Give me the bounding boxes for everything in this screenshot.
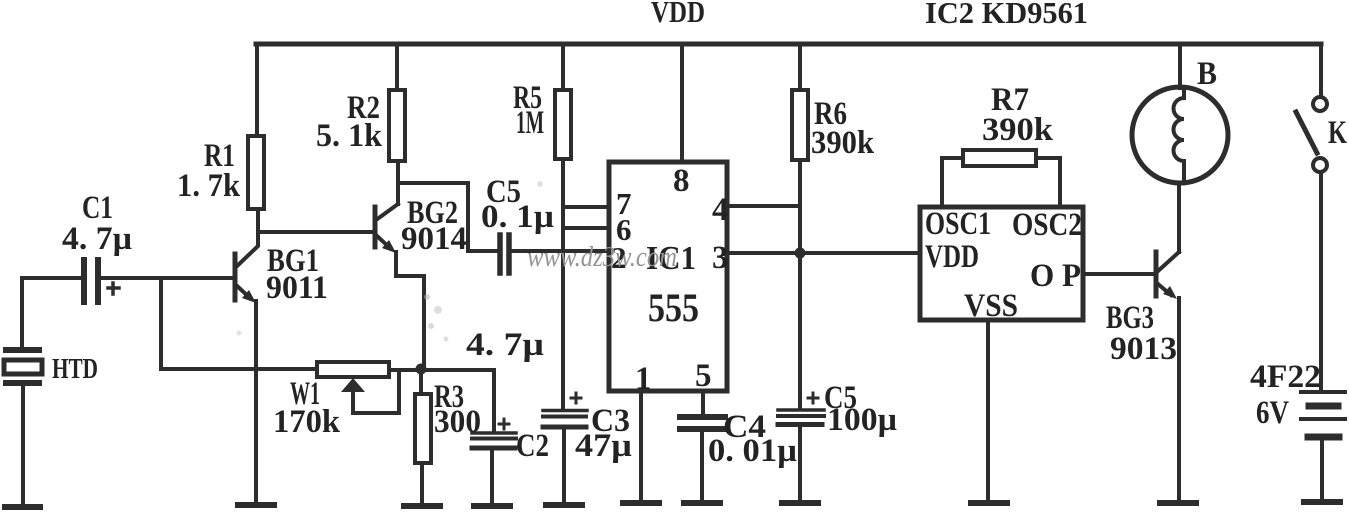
svg-text:B: B (1197, 56, 1217, 92)
svg-text:0. 1µ: 0. 1µ (481, 199, 554, 235)
ground C4 (684, 500, 720, 506)
potentiometer W1 wiper arrow (341, 378, 365, 392)
wire BG1 emitter down to ground (254, 301, 258, 505)
potentiometer W1 wiper connection (353, 372, 399, 413)
wire input junction down and right to W1 left end (161, 278, 316, 369)
resistor R1 (248, 136, 264, 209)
wire R2 branch from rail (395, 44, 399, 90)
wire R5 branch from rail (561, 44, 565, 90)
svg-text:5. 1k: 5. 1k (316, 118, 383, 154)
svg-text:9014: 9014 (401, 221, 467, 257)
wire 555 pin 5 stub to C4 (701, 391, 705, 416)
IC2 KD9561 box (920, 207, 1083, 320)
wire R7 left lead to OSC1 (942, 158, 963, 207)
transistor BG1 (233, 254, 238, 300)
svg-text:4: 4 (712, 192, 729, 228)
svg-text:4F22: 4F22 (1250, 359, 1321, 395)
resistor R6 (792, 90, 808, 160)
ground BG3 emitter (1160, 500, 1196, 506)
svg-text:100µ: 100µ (827, 402, 897, 438)
wire 555 pin 8 stub from rail (680, 44, 684, 162)
wire IC2 VSS stub to ground (986, 320, 990, 503)
svg-text:HTD: HTD (52, 354, 98, 385)
svg-text:VSS: VSS (964, 288, 1018, 324)
HTD piezo element (6, 347, 39, 353)
transistor BG3 (1154, 252, 1159, 296)
wire C5b bottom plate to ground (798, 426, 802, 503)
wire 555 pin 4 stub to R6 line (727, 204, 800, 208)
wire BG2 collector node to C5 left plate (398, 183, 497, 251)
wire 555 pin 6 stub (563, 226, 609, 230)
scan speckles (237, 181, 544, 342)
ground battery (1304, 499, 1340, 505)
switch K blade (1296, 112, 1317, 153)
svg-text:47µ: 47µ (575, 428, 632, 464)
capacitor C1 plus sign (108, 283, 119, 294)
svg-text:6V: 6V (1256, 395, 1289, 431)
wire C4 bottom to ground (700, 430, 704, 503)
svg-text:1. 7k: 1. 7k (177, 168, 241, 204)
svg-text:390k: 390k (811, 125, 875, 161)
svg-text:170k: 170k (273, 404, 341, 440)
wire R6 bottom down through pin4 node to C5b top plate (798, 160, 802, 408)
svg-text:9011: 9011 (266, 270, 328, 306)
wire HTD bottom lead to ground (21, 383, 25, 507)
potentiometer W1 body (317, 362, 389, 377)
wire R2 bottom to collector node of BG2 (396, 161, 400, 183)
capacitor C3 plates (543, 409, 587, 413)
wire HTD top lead (20, 278, 24, 350)
lamp B filament squiggle (1174, 89, 1185, 181)
wire R6 branch from rail (798, 44, 802, 90)
battery 4F22 plates (1301, 390, 1345, 394)
ground C5b (782, 500, 818, 506)
node W1/R3/BG2-emitter junction dot (416, 364, 427, 375)
svg-text:3: 3 (712, 240, 729, 276)
svg-text:0. 01µ: 0. 01µ (708, 433, 797, 469)
capacitor C2 plus sign (499, 419, 509, 429)
wire W1 right end to R3 node (389, 368, 421, 372)
node pin3 / R6 line junction dot (795, 248, 806, 259)
switch K bottom contact (1313, 158, 1327, 172)
svg-text:4. 7µ: 4. 7µ (62, 221, 132, 257)
wire R1 bottom to BG1 collector node (256, 209, 260, 232)
wire BG1 collector node to BG2 base (258, 230, 372, 234)
wire R3 node branch to C2 (421, 370, 494, 431)
resistor R5 (555, 90, 571, 159)
svg-text:OSC1: OSC1 (925, 206, 991, 242)
ground C3 (546, 502, 582, 508)
svg-text:OSC2: OSC2 (1012, 207, 1082, 243)
lamp B circle (1132, 87, 1228, 183)
capacitor C4 plates (680, 414, 725, 420)
wire R3 bottom to ground (420, 463, 424, 506)
capacitor C5b plus sign (808, 393, 818, 403)
svg-text:5: 5 (695, 358, 712, 394)
wire R7 right lead to OSC2 (1036, 158, 1060, 207)
capacitor C2 plates (472, 431, 516, 435)
svg-text:555: 555 (648, 285, 699, 330)
resistor R7 body (963, 150, 1036, 166)
svg-text:C2: C2 (516, 428, 549, 464)
transistor BG2 (373, 207, 378, 247)
svg-text:4. 7µ: 4. 7µ (466, 327, 544, 363)
ground BG1 emitter (238, 502, 274, 508)
wire R3 top lead (419, 369, 423, 394)
capacitor C5 0.1u plates (497, 235, 503, 273)
svg-text:9013: 9013 (1110, 331, 1177, 367)
ground 555 pin1 (623, 500, 659, 506)
svg-text:www.dz3w.com: www.dz3w.com (527, 242, 677, 273)
wire lamp branch from rail (1178, 44, 1182, 88)
svg-text:390k: 390k (982, 112, 1054, 148)
wire R5 bottom down to C3 top plate (561, 159, 565, 408)
wire input node: C1 left lead to HTD (22, 276, 82, 280)
svg-text:8: 8 (673, 163, 690, 199)
capacitor C3 plus sign (571, 393, 581, 403)
svg-text:K: K (1328, 115, 1347, 151)
svg-text:1: 1 (635, 361, 652, 397)
svg-text:300: 300 (434, 404, 481, 440)
svg-text:IC2 KD9561: IC2 KD9561 (925, 0, 1088, 30)
ground R3 (404, 503, 440, 509)
wire IC2 P pin to BG3 base (1083, 272, 1156, 276)
wire 555 pin 1 stub to ground (639, 391, 643, 503)
wire lamp bottom to BG3 collector (1177, 183, 1181, 252)
resistor R2 (389, 90, 405, 161)
resistor R3 (415, 394, 431, 463)
svg-text:VDD: VDD (925, 239, 979, 275)
capacitor C1 electrolytic plates (81, 260, 87, 302)
wire C5 right plate to 555 pin 2 (512, 249, 609, 253)
wire battery bottom to ground (1320, 440, 1324, 502)
ground IC2 VSS (971, 500, 1007, 506)
svg-text:1M: 1M (516, 105, 544, 141)
wire switch K to battery top (1319, 173, 1323, 390)
wire C3 bottom to ground (562, 429, 566, 505)
svg-text:VDD: VDD (651, 0, 705, 29)
switch K top contact (1313, 97, 1327, 111)
wire 555 pin 3 to IC2 VDD pin (727, 251, 920, 255)
wire BG2 emitter down to R3 node (396, 252, 424, 369)
wire VDD top rail (256, 42, 1321, 47)
wire rail right end down to switch K (1319, 44, 1323, 96)
ground HTD (5, 504, 40, 510)
wire BG3 emitter to ground (1177, 298, 1181, 503)
wire C1 right plate to BG1 base (101, 276, 234, 280)
wire 555 pin 7 stub (563, 205, 609, 209)
IC1 555 box (609, 162, 727, 391)
wire R1 branch from rail (255, 44, 259, 136)
capacitor C5b 100u plates (778, 408, 824, 412)
wire C2 bottom to ground (490, 450, 494, 506)
ground C2 (474, 503, 510, 509)
svg-text:O P: O P (1030, 258, 1081, 294)
